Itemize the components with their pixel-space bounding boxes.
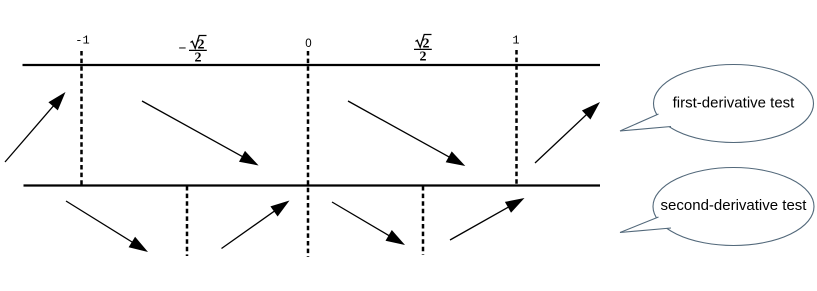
top arrow 2 (decreasing) [142,101,259,166]
svg-text:2: 2 [195,51,202,66]
bottom arrow 1 (concave down, decreasing) [66,201,148,252]
label -sqrt(2)/2 fraction [179,36,207,66]
top arrow 1 (increasing) [5,92,66,162]
top number line (first derivative) [23,64,601,66]
dashed line at x=-1 [80,51,83,185]
top arrow 3 (decreasing) [348,101,465,166]
svg-text:first-derivative test: first-derivative test [673,95,796,112]
bottom arrow 2 (increasing) [222,201,290,249]
dashed line at x=sqrt2/2 (below bottom line) [422,186,425,255]
svg-text:-1: -1 [75,34,89,48]
dashed line at x=1 [515,50,518,185]
bottom arrow 4 (increasing) [450,198,525,240]
svg-text:2: 2 [420,50,427,65]
speech bubble 2: second-derivative test [620,168,814,246]
top arrow 4 (increasing) [535,102,600,163]
dashed line at x=-sqrt2/2 (below bottom line) [186,186,189,256]
bottom arrow 3 (decreasing) [332,202,405,245]
speech bubble 1: first-derivative test [620,65,814,143]
svg-text:second-derivative test: second-derivative test [661,197,808,214]
svg-text:−: − [179,42,187,57]
dashed line at x=0 [307,51,310,257]
label sqrt(2)/2 fraction [414,35,432,65]
svg-text:0: 0 [305,38,311,50]
svg-text:1: 1 [512,34,519,48]
bottom number line (second derivative) [24,184,601,186]
